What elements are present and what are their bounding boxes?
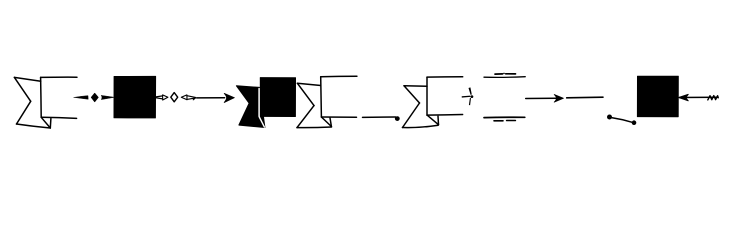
filled banner B2 white seam along band left edge — [258, 89, 260, 117]
banner B3 band bottom edge — [321, 116, 356, 118]
flat ellipse top dot — [503, 73, 505, 75]
banner B3 notch upper diagonal — [297, 83, 314, 105]
dumbbell link left dot — [607, 115, 612, 120]
connector A1 right spear (filled, apex at square) — [101, 95, 114, 99]
banner B4 notch lower diagonal — [403, 103, 420, 128]
connector A2 left shaft lower line — [156, 98, 163, 99]
wire with dot terminal — [363, 116, 396, 118]
arrow A3 shaft — [197, 97, 225, 99]
flat ellipse bottom lower dash left — [494, 120, 503, 122]
banner B1 fold right edge — [49, 119, 52, 128]
dumbbell link curve — [612, 118, 633, 123]
connector A1 filled diamond — [91, 93, 98, 101]
flat ellipse top upper dash right — [506, 73, 516, 75]
connector A2 left shaft upper line — [156, 96, 163, 97]
connector A2 open arrowhead pointing right — [163, 95, 168, 100]
banner B1 notch upper diagonal — [14, 77, 30, 101]
banner B3 tail top edge — [297, 83, 320, 85]
connector A2 open diamond — [171, 93, 178, 102]
arrow A4 shaft — [526, 97, 556, 99]
banner B1 tail top edge — [14, 77, 40, 81]
flat ellipse bottom lower dash right — [507, 120, 516, 122]
dumbbell link right dot — [632, 120, 637, 125]
crow's foot glyph left stroke — [462, 96, 471, 98]
banner B3 fold right edge — [330, 118, 331, 127]
wire segment — [567, 96, 603, 99]
banner B4 notch upper diagonal — [404, 86, 420, 103]
banner B3 tail bottom edge — [297, 126, 332, 129]
crow's foot glyph bottom stroke — [469, 98, 471, 105]
banner B3 band top edge — [321, 75, 357, 77]
banner B1 fold diagonal — [41, 117, 50, 128]
connector A2 open arrowhead pointing left — [181, 95, 187, 100]
banner B4 fold right edge — [437, 116, 440, 125]
connector A2 right shaft lower line — [187, 98, 196, 100]
filled banner B2 tail (black) — [237, 86, 265, 128]
banner B1 notch lower diagonal — [17, 101, 31, 124]
banner B4 fold diagonal — [427, 115, 438, 125]
flat ellipse top upper dash left — [495, 73, 503, 75]
banner B4 band bottom edge — [427, 114, 463, 117]
filled banner B2 band rectangle — [260, 78, 295, 117]
connector A1 left spear (filled arrowhead pointing left) — [74, 96, 88, 100]
black square S2 — [637, 76, 678, 117]
dot terminal — [395, 116, 400, 121]
banner B1 band top edge — [41, 76, 77, 78]
arrow A3 head — [224, 93, 234, 102]
banner B4 band left edge — [426, 77, 428, 115]
black square S1 — [114, 76, 156, 118]
flat ellipse top lower arc — [484, 76, 525, 79]
banner B3 band left edge — [320, 77, 323, 117]
banner B4 band top edge — [427, 76, 463, 78]
banner B4 tail bottom edge — [403, 125, 439, 127]
banner B3 fold diagonal — [321, 117, 331, 127]
fletched arrow A5 shaft — [680, 96, 719, 98]
fletched arrow A5 fletching zigzag — [708, 96, 718, 100]
flat ellipse bottom upper arc — [484, 116, 525, 118]
banner B1 band bottom edge — [41, 117, 76, 118]
banner B1 tail bottom edge — [17, 124, 51, 128]
arrow A4 head — [554, 95, 563, 103]
crow's foot glyph junction dot — [471, 95, 474, 98]
banner B3 notch lower diagonal — [297, 106, 314, 128]
connector A2 right shaft upper line — [187, 96, 196, 98]
banner B1 band left edge — [40, 77, 43, 117]
crow's foot glyph top stroke — [469, 87, 472, 95]
fletched arrow A5 head — [679, 94, 688, 100]
banner B4 tail top edge — [404, 85, 427, 88]
filled banner B2 white seam along fold diagonal — [259, 117, 264, 127]
